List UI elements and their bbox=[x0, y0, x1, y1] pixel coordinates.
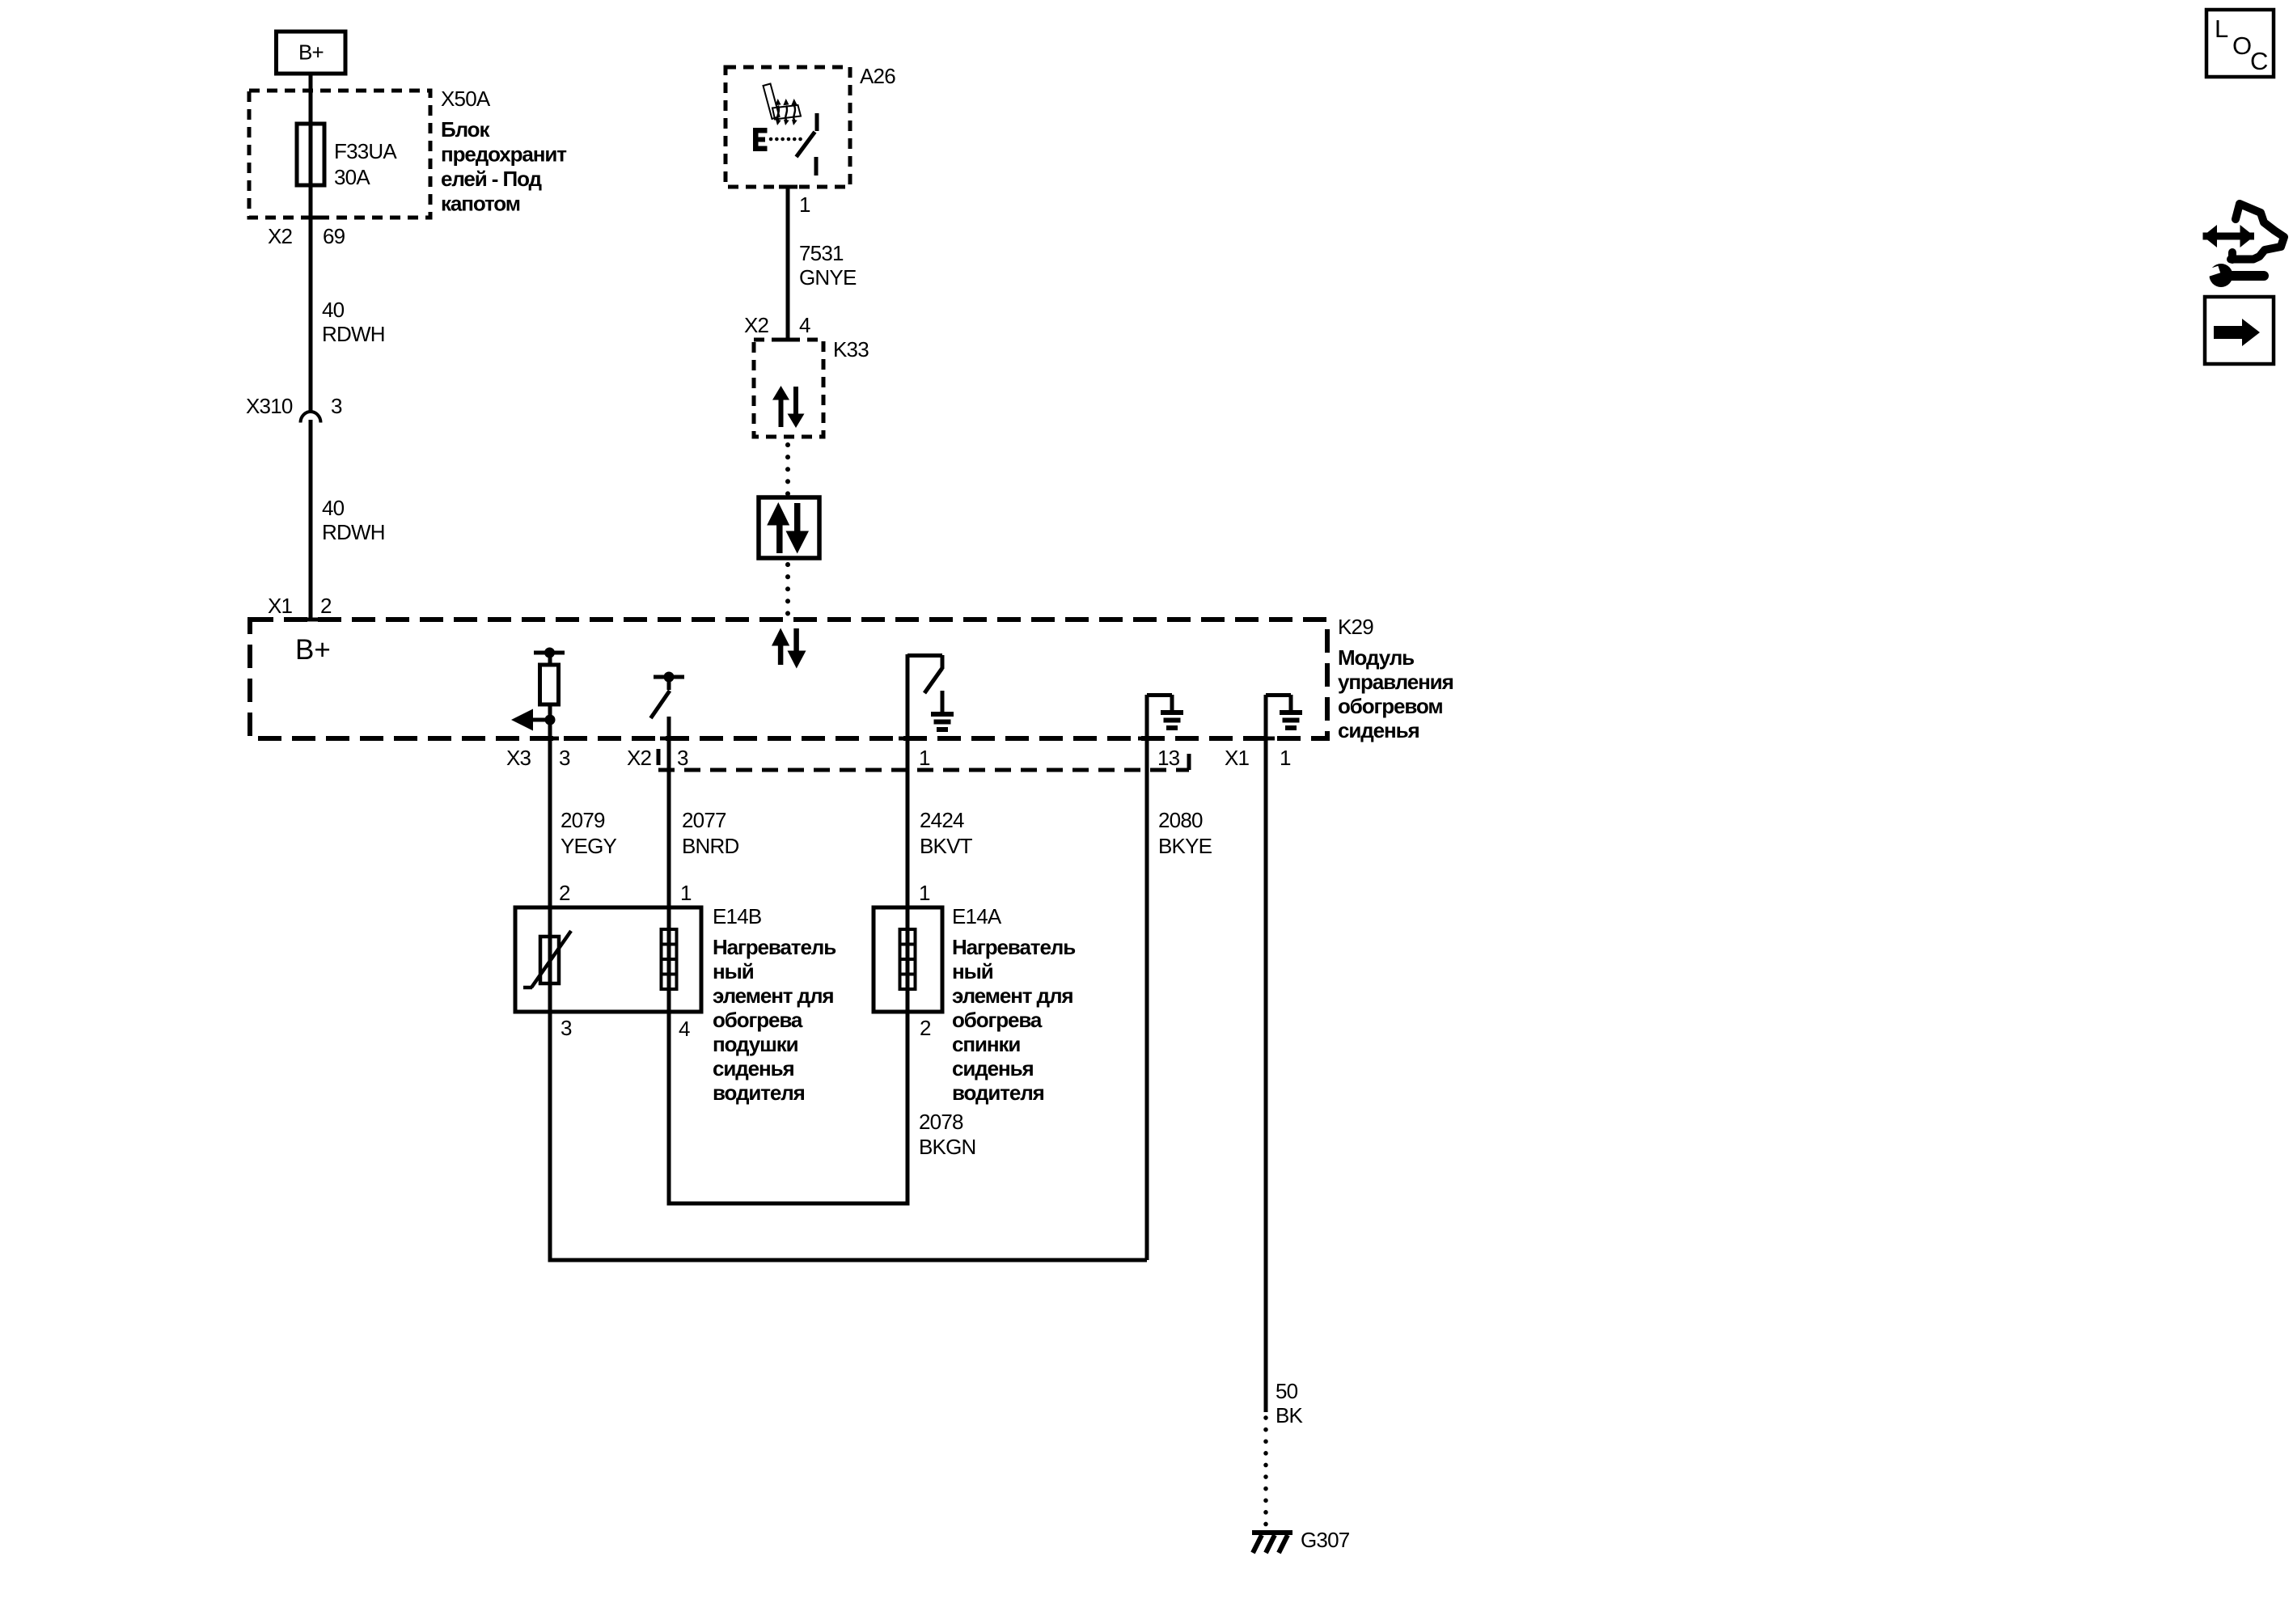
svg-text:Блок: Блок bbox=[441, 117, 490, 142]
svg-text:сиденья: сиденья bbox=[713, 1056, 794, 1081]
terminal tick X2:69 at fuse block edge bbox=[302, 216, 319, 220]
wire E14B pin3 to wire 2080 bbox=[550, 1012, 1147, 1260]
svg-text:Модуль: Модуль bbox=[1338, 645, 1414, 670]
driver output X3:3 (sensor feed) bbox=[511, 648, 565, 739]
svg-text:2: 2 bbox=[320, 594, 332, 618]
svg-text:F33UA: F33UA bbox=[334, 139, 397, 163]
forward reference arrow icon bbox=[2205, 297, 2274, 364]
svg-text:4: 4 bbox=[679, 1017, 690, 1041]
heated seat icon bbox=[764, 84, 802, 120]
svg-text:13: 13 bbox=[1157, 746, 1180, 770]
connector X2 sub-box bbox=[658, 749, 1189, 770]
svg-text:X2: X2 bbox=[268, 224, 293, 248]
svg-text:предохранит: предохранит bbox=[441, 142, 567, 167]
box up arrow bbox=[776, 522, 783, 553]
box down arrow bbox=[794, 503, 801, 534]
svg-text:K33: K33 bbox=[833, 337, 869, 362]
svg-text:GNYE: GNYE bbox=[799, 265, 857, 290]
terminal tick X2:1 bbox=[899, 737, 916, 741]
svg-text:3: 3 bbox=[677, 746, 688, 770]
svg-text:2424: 2424 bbox=[920, 808, 964, 832]
svg-text:сиденья: сиденья bbox=[952, 1056, 1034, 1081]
svg-text:1: 1 bbox=[799, 192, 810, 217]
K29 input arrows bbox=[778, 644, 784, 665]
LOC legend box bbox=[2206, 10, 2274, 77]
svg-text:E14A: E14A bbox=[952, 904, 1002, 928]
ground G307 bbox=[1252, 1528, 1350, 1553]
svg-text:Нагреватель: Нагреватель bbox=[952, 935, 1075, 959]
svg-text:X50A: X50A bbox=[441, 87, 491, 111]
svg-text:X3: X3 bbox=[506, 746, 531, 770]
dotted link K33 to arrow box bbox=[785, 445, 790, 495]
svg-text:элемент для: элемент для bbox=[952, 983, 1072, 1008]
wire from X310 to module K29 bbox=[309, 420, 313, 620]
terminal tick K33 X2:4 bbox=[779, 338, 797, 342]
wire E14B pin4 to E14A pin2 bbox=[669, 1012, 907, 1203]
svg-text:7531: 7531 bbox=[799, 241, 844, 265]
svg-text:капотом: капотом bbox=[441, 192, 520, 216]
fuse block X50A bbox=[249, 87, 567, 218]
svg-text:40: 40 bbox=[322, 496, 345, 520]
svg-text:1: 1 bbox=[919, 746, 930, 770]
wire 2079 YEGY bbox=[548, 738, 552, 907]
terminal tick pin 13 bbox=[1138, 737, 1156, 741]
heater element E14B bbox=[515, 904, 836, 1105]
svg-text:BKYE: BKYE bbox=[1158, 834, 1212, 858]
svg-text:ный: ный bbox=[713, 959, 754, 983]
switch assembly A26 bbox=[726, 64, 895, 187]
harness repair icon bbox=[2203, 204, 2285, 287]
terminal tick X1:2 at K29 top edge bbox=[302, 618, 319, 622]
svg-text:A26: A26 bbox=[860, 64, 895, 88]
internal ground pin 13 bbox=[1147, 695, 1183, 738]
svg-text:L: L bbox=[2215, 15, 2228, 43]
svg-text:BK: BK bbox=[1276, 1403, 1304, 1427]
dotted ground link bbox=[1263, 1418, 1268, 1531]
terminal tick A26 pin 1 bbox=[779, 185, 797, 189]
svg-text:RDWH: RDWH bbox=[322, 322, 385, 346]
svg-text:BKVT: BKVT bbox=[920, 834, 973, 858]
svg-text:елей - Под: елей - Под bbox=[441, 167, 543, 191]
terminal tick X3:3 bbox=[541, 737, 559, 741]
internal ground X1:1 bbox=[1266, 695, 1302, 738]
internal switch X2:3 bbox=[651, 672, 685, 739]
svg-text:ный: ный bbox=[952, 959, 993, 983]
arrow function box bbox=[759, 497, 819, 558]
svg-text:элемент для: элемент для bbox=[713, 983, 833, 1008]
svg-text:управления: управления bbox=[1338, 670, 1453, 694]
svg-text:2: 2 bbox=[559, 881, 570, 905]
svg-text:B+: B+ bbox=[295, 634, 331, 666]
svg-text:40: 40 bbox=[322, 298, 345, 322]
svg-text:O: O bbox=[2232, 32, 2252, 60]
module K29 box bbox=[250, 615, 1453, 742]
terminal tick X2:3 bbox=[660, 737, 678, 741]
heating element bars E14B bbox=[667, 907, 671, 1012]
svg-text:3: 3 bbox=[331, 394, 342, 418]
thermistor in E14B bbox=[523, 931, 571, 988]
internal switch to ground X2:1 bbox=[907, 654, 954, 738]
svg-text:4: 4 bbox=[799, 313, 810, 337]
K33 down arrow bbox=[793, 387, 798, 416]
dotted actuation link bbox=[771, 137, 801, 142]
svg-text:2077: 2077 bbox=[682, 808, 726, 832]
svg-text:сиденья: сиденья bbox=[1338, 718, 1419, 742]
svg-text:2078: 2078 bbox=[919, 1110, 963, 1134]
svg-text:X1: X1 bbox=[1225, 746, 1250, 770]
fuse F33UA 30A bbox=[297, 124, 397, 189]
svg-text:1: 1 bbox=[680, 881, 692, 905]
heat wave arrows bbox=[775, 99, 797, 125]
svg-text:спинки: спинки bbox=[952, 1032, 1020, 1056]
svg-text:2079: 2079 bbox=[561, 808, 605, 832]
svg-text:RDWH: RDWH bbox=[322, 520, 385, 544]
heater element E14A bbox=[874, 904, 1075, 1105]
svg-text:2080: 2080 bbox=[1158, 808, 1203, 832]
svg-text:YEGY: YEGY bbox=[561, 834, 617, 858]
power node B+ bbox=[277, 32, 346, 74]
dotted link arrow box to K29 bbox=[785, 565, 790, 616]
svg-text:обогрева: обогрева bbox=[952, 1008, 1043, 1032]
svg-text:подушки: подушки bbox=[713, 1032, 798, 1056]
svg-text:3: 3 bbox=[561, 1016, 572, 1040]
svg-text:водителя: водителя bbox=[713, 1081, 805, 1105]
terminal tick X1:1 bbox=[1257, 737, 1275, 741]
svg-text:K29: K29 bbox=[1338, 615, 1373, 639]
svg-text:G307: G307 bbox=[1301, 1528, 1350, 1552]
wire through E14B left bbox=[548, 907, 552, 1012]
svg-text:X2: X2 bbox=[627, 746, 652, 770]
svg-text:обогрева: обогрева bbox=[713, 1008, 803, 1032]
wire 2077 BNRD bbox=[667, 738, 671, 907]
wire A26 pin1 to K33 bbox=[786, 187, 790, 340]
wire 2424 BKVT bbox=[906, 738, 910, 907]
svg-text:E14B: E14B bbox=[713, 904, 761, 928]
svg-text:BNRD: BNRD bbox=[682, 834, 738, 858]
K33 up arrow bbox=[779, 398, 784, 427]
svg-text:X2: X2 bbox=[744, 313, 769, 337]
svg-text:1: 1 bbox=[919, 881, 930, 905]
wire 2080 BKYE bbox=[1145, 738, 1149, 1260]
svg-text:30A: 30A bbox=[334, 165, 370, 189]
svg-text:3: 3 bbox=[559, 746, 570, 770]
switch blade A26 bbox=[797, 113, 818, 176]
svg-text:69: 69 bbox=[323, 224, 345, 248]
svg-text:B+: B+ bbox=[298, 40, 324, 65]
switch contact E label bbox=[753, 128, 768, 151]
svg-text:X1: X1 bbox=[268, 594, 293, 618]
wire from B+ through fuse to connector X310 bbox=[309, 74, 313, 413]
svg-text:C: C bbox=[2250, 47, 2268, 75]
svg-text:2: 2 bbox=[920, 1016, 931, 1040]
svg-text:водителя: водителя bbox=[952, 1081, 1044, 1105]
svg-text:обогревом: обогревом bbox=[1338, 694, 1443, 718]
svg-text:1: 1 bbox=[1280, 746, 1291, 770]
relay module K33 bbox=[754, 337, 869, 437]
svg-text:50: 50 bbox=[1276, 1379, 1298, 1403]
wire X1:1 to ground bbox=[1264, 738, 1268, 1412]
svg-text:X310: X310 bbox=[246, 394, 293, 418]
wire through E14A bbox=[906, 907, 910, 1012]
svg-text:BKGN: BKGN bbox=[919, 1135, 975, 1159]
inline connector X310 pin 3 bbox=[246, 394, 342, 423]
svg-text:Нагреватель: Нагреватель bbox=[713, 935, 836, 959]
